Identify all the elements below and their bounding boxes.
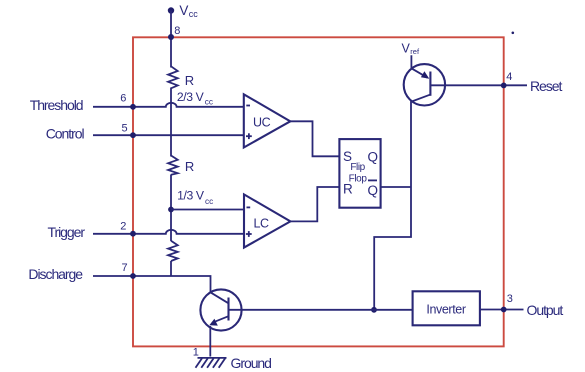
svg-text:Reset: Reset bbox=[530, 78, 562, 94]
junction threshold / border bbox=[130, 104, 136, 110]
ground symbol bbox=[196, 358, 227, 368]
Q2 emitter arrowhead bbox=[421, 71, 429, 79]
wire flip-flop Qbar output to transistor collector line bbox=[381, 186, 411, 188]
Q1 emitter wire bbox=[212, 316, 229, 323]
wire LC output to flip-flop R input bbox=[290, 187, 339, 221]
wire 1/3 Vcc tap to LC inverting input bbox=[171, 209, 244, 211]
svg-text:4: 4 bbox=[506, 71, 512, 83]
svg-text:Threshold: Threshold bbox=[30, 97, 83, 113]
svg-text:Trigger: Trigger bbox=[48, 224, 86, 240]
svg-text:R: R bbox=[185, 73, 194, 88]
flip-flop Qbar overline bbox=[368, 179, 377, 181]
wire discharge pin 7 to Q1 collector bbox=[93, 276, 211, 292]
junction discharge / border bbox=[130, 273, 136, 279]
junction 1/3 Vcc tap bbox=[168, 207, 174, 213]
svg-text:7: 7 bbox=[122, 262, 128, 274]
wire R3 to discharge line bbox=[170, 261, 172, 276]
junction reset / border bbox=[501, 83, 507, 89]
Vcc terminal dot bbox=[168, 7, 174, 13]
svg-text:2: 2 bbox=[120, 221, 126, 233]
Q2 emitter wire from Vref bbox=[411, 55, 427, 77]
Q1 emitter to ground wire bbox=[209, 326, 211, 357]
svg-text:2/3 V: 2/3 V bbox=[177, 90, 205, 104]
junction Vcc wire / top border bbox=[168, 34, 174, 40]
Q2 base bar bbox=[429, 72, 431, 96]
svg-text:Flip: Flip bbox=[350, 162, 365, 173]
svg-text:1/3 V: 1/3 V bbox=[177, 188, 205, 202]
resistor R2 bbox=[168, 156, 178, 175]
svg-text:Q: Q bbox=[368, 150, 378, 165]
svg-text:Q: Q bbox=[368, 183, 378, 198]
UC non-inverting sign bbox=[246, 133, 252, 139]
svg-text:cc: cc bbox=[189, 9, 199, 19]
svg-text:LC: LC bbox=[254, 216, 270, 230]
svg-text:UC: UC bbox=[253, 116, 271, 130]
Q1 base bar bbox=[227, 298, 229, 321]
wire Vcc to resistor R1 bbox=[170, 11, 172, 68]
svg-text:Control: Control bbox=[46, 125, 85, 141]
Q1 collector wire bbox=[210, 292, 228, 303]
svg-text:V: V bbox=[179, 3, 188, 18]
Q1 base wire to inverter input bbox=[229, 309, 413, 311]
svg-text:6: 6 bbox=[120, 92, 126, 104]
resistor R3 bbox=[168, 241, 178, 261]
IC boundary box (red) bbox=[133, 37, 504, 346]
inverter U3 box bbox=[413, 291, 480, 325]
svg-text:8: 8 bbox=[174, 25, 180, 37]
svg-text:Inverter: Inverter bbox=[426, 303, 465, 317]
LC non-inverting sign bbox=[246, 231, 252, 237]
svg-text:cc: cc bbox=[205, 98, 213, 107]
transistor Q1 (discharge NPN) body circle bbox=[200, 289, 241, 330]
wire divider R2 to R3 bbox=[170, 175, 172, 242]
stray dot top right bbox=[512, 32, 515, 35]
wire control pin 5 to UC non-inverting input bbox=[93, 134, 244, 136]
Q2 base wire to Reset pin bbox=[430, 84, 527, 86]
svg-text:Discharge: Discharge bbox=[28, 266, 83, 282]
svg-text:Output: Output bbox=[527, 302, 564, 318]
transistor Q2 (reset PNP) body circle bbox=[404, 64, 445, 105]
svg-text:1: 1 bbox=[193, 347, 199, 359]
svg-text:V: V bbox=[402, 42, 411, 56]
wire inverter output to Output pin 3 bbox=[480, 309, 524, 311]
Q1 emitter arrowhead bbox=[209, 319, 218, 326]
wire trigger pin 2 to LC non-inverting input (hops over divider) bbox=[93, 230, 244, 234]
svg-text:R: R bbox=[343, 182, 353, 197]
junction trigger / border bbox=[130, 231, 136, 237]
junction control / border bbox=[130, 132, 136, 138]
junction Qbar line / inverter input line bbox=[371, 307, 377, 313]
svg-text:ref: ref bbox=[410, 47, 420, 56]
svg-text:R: R bbox=[185, 159, 194, 174]
wire threshold pin 6 to UC inverting input (hops over divider) bbox=[93, 103, 244, 107]
svg-text:cc: cc bbox=[205, 197, 213, 206]
svg-text:3: 3 bbox=[507, 293, 513, 305]
svg-text:5: 5 bbox=[122, 122, 128, 134]
LC inverting sign bbox=[247, 206, 251, 208]
junction output / border bbox=[501, 307, 507, 313]
UC inverting sign bbox=[246, 105, 250, 107]
svg-text:Ground: Ground bbox=[231, 355, 272, 371]
Q2 collector wire bbox=[374, 95, 430, 310]
op-amp LC (lower comparator) bbox=[244, 194, 290, 247]
op-amp UC (upper comparator) bbox=[244, 94, 290, 147]
flip-flop U2 box bbox=[339, 139, 380, 208]
wire divider R1 to R2 bbox=[170, 88, 172, 157]
resistor R1 bbox=[168, 66, 178, 88]
wire UC output to flip-flop S input bbox=[290, 121, 339, 156]
